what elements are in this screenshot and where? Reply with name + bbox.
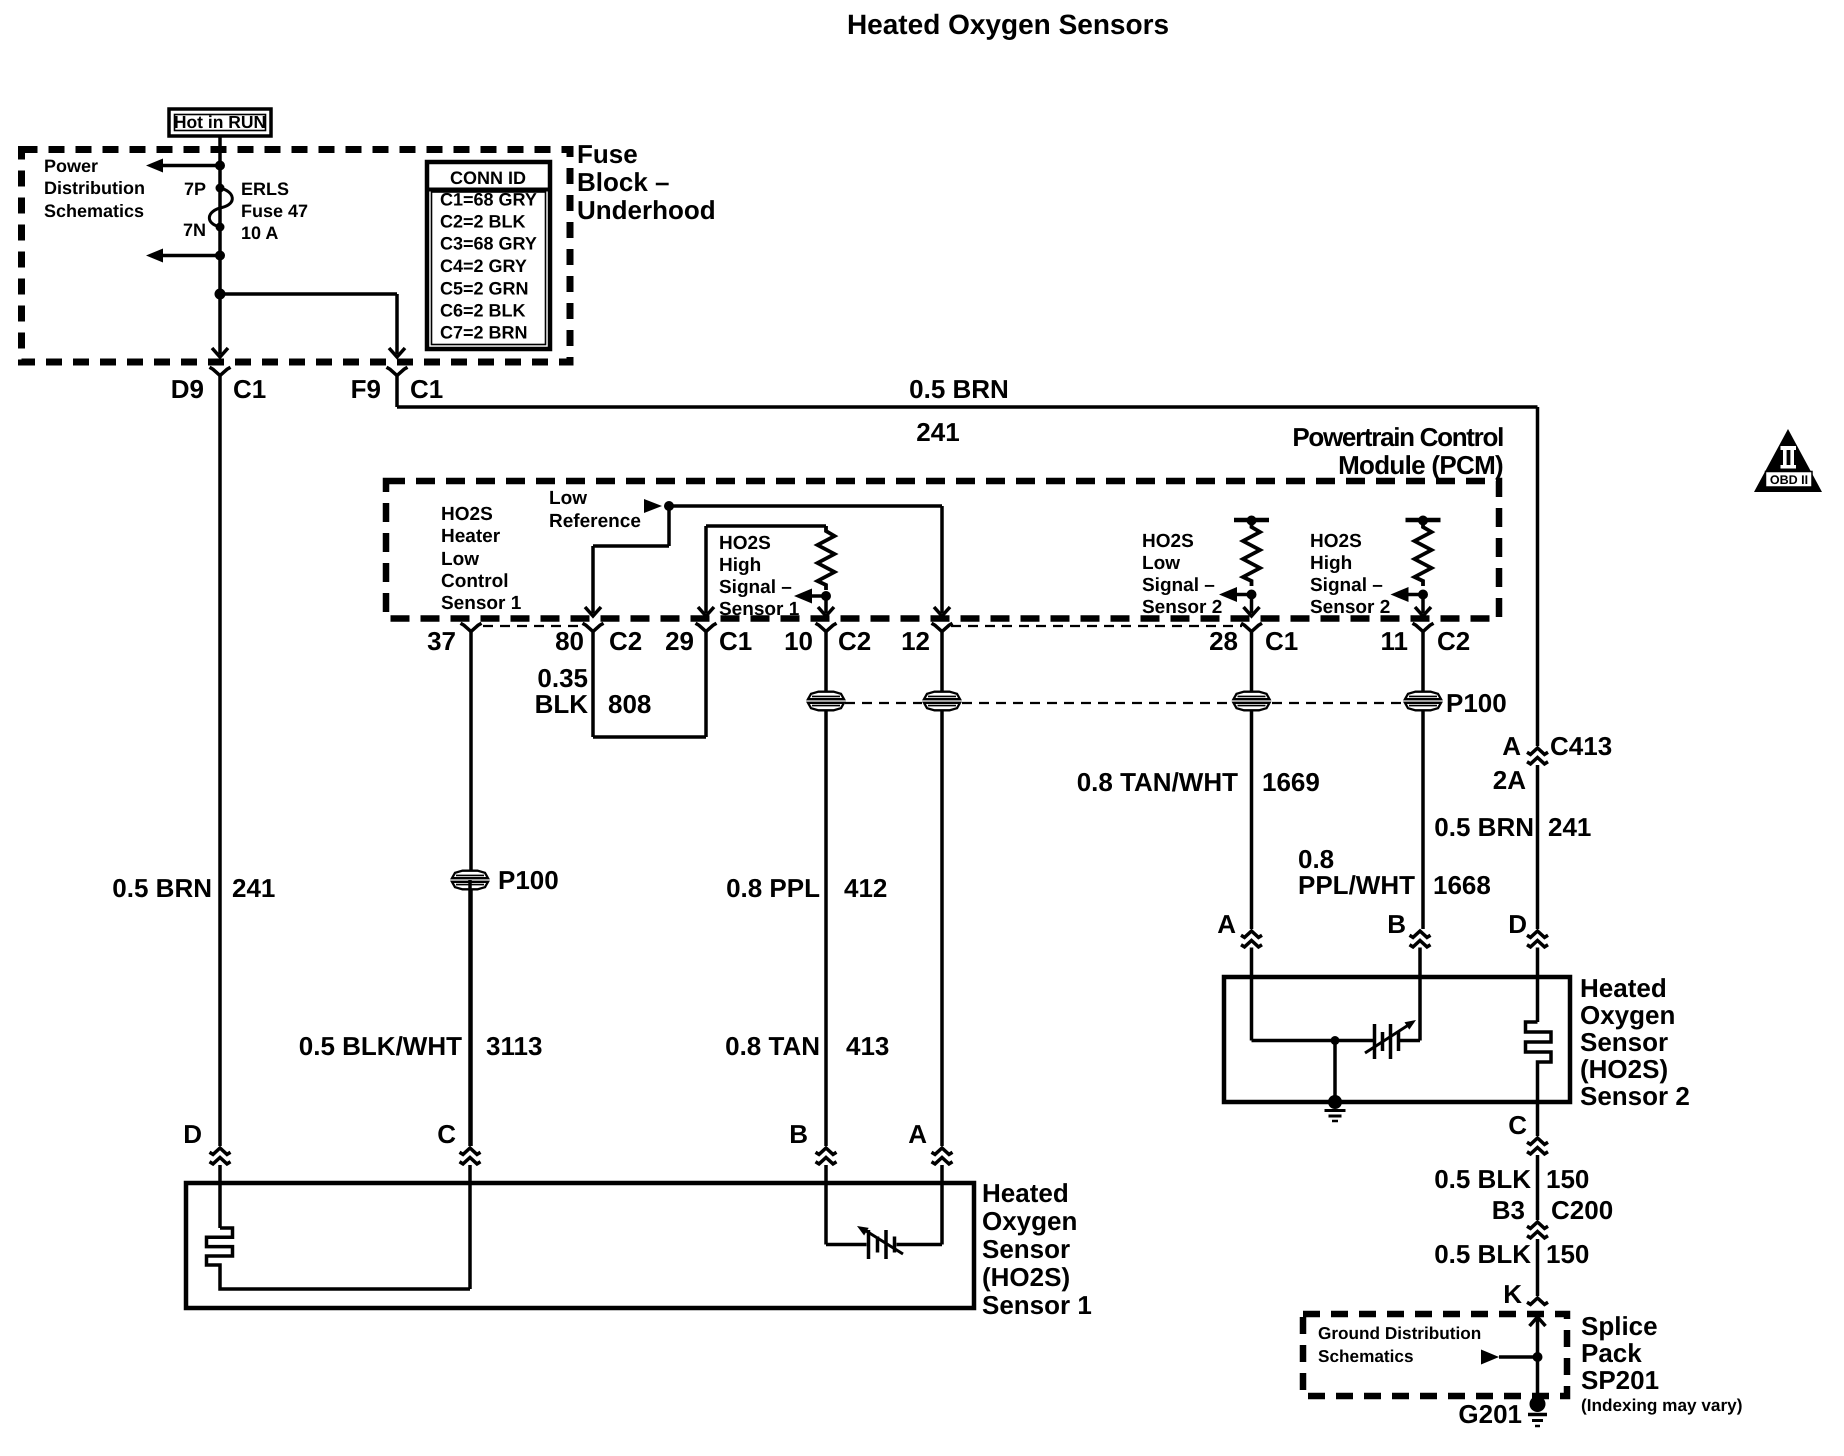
svg-text:1669: 1669 bbox=[1262, 767, 1320, 797]
svg-text:10 A: 10 A bbox=[241, 223, 278, 243]
svg-text:3113: 3113 bbox=[486, 1031, 542, 1061]
svg-text:2A: 2A bbox=[1493, 765, 1526, 795]
svg-text:Pack: Pack bbox=[1581, 1338, 1642, 1368]
svg-text:CONN ID: CONN ID bbox=[450, 168, 526, 188]
svg-text:Low: Low bbox=[549, 488, 587, 509]
svg-text:HO2S: HO2S bbox=[1142, 531, 1194, 552]
svg-text:Block –: Block – bbox=[577, 167, 670, 197]
svg-text:Heated: Heated bbox=[982, 1178, 1069, 1208]
svg-text:C2: C2 bbox=[1437, 626, 1470, 656]
svg-text:Sensor 1: Sensor 1 bbox=[982, 1290, 1092, 1320]
svg-text:241: 241 bbox=[232, 873, 275, 903]
svg-text:D: D bbox=[183, 1119, 202, 1149]
svg-text:80: 80 bbox=[555, 626, 584, 656]
svg-text:(Indexing may vary): (Indexing may vary) bbox=[1581, 1395, 1742, 1415]
svg-text:Low: Low bbox=[1142, 553, 1180, 574]
svg-text:C1: C1 bbox=[1265, 626, 1298, 656]
svg-text:Sensor: Sensor bbox=[1580, 1027, 1668, 1057]
svg-text:Sensor 2: Sensor 2 bbox=[1580, 1081, 1690, 1111]
svg-text:808: 808 bbox=[608, 689, 651, 719]
svg-text:Sensor 1: Sensor 1 bbox=[441, 593, 522, 614]
svg-text:A: A bbox=[1217, 909, 1236, 939]
svg-text:(HO2S): (HO2S) bbox=[1580, 1054, 1668, 1084]
svg-text:Sensor 1: Sensor 1 bbox=[719, 599, 800, 620]
svg-text:241: 241 bbox=[916, 417, 959, 447]
svg-text:Signal –: Signal – bbox=[1142, 575, 1215, 596]
svg-text:C2: C2 bbox=[609, 626, 642, 656]
svg-text:D: D bbox=[1508, 909, 1527, 939]
svg-text:28: 28 bbox=[1209, 626, 1238, 656]
svg-text:High: High bbox=[719, 555, 761, 576]
svg-text:C413: C413 bbox=[1550, 731, 1612, 761]
svg-text:Fuse: Fuse bbox=[577, 139, 638, 169]
svg-text:Power: Power bbox=[44, 156, 98, 176]
svg-text:Sensor: Sensor bbox=[982, 1234, 1070, 1264]
svg-text:C6=2 BLK: C6=2 BLK bbox=[440, 301, 526, 321]
svg-text:Hot in RUN: Hot in RUN bbox=[174, 112, 266, 132]
svg-text:0.5 BRN: 0.5 BRN bbox=[112, 873, 212, 903]
svg-text:C1=68 GRY: C1=68 GRY bbox=[440, 190, 537, 210]
svg-text:7P: 7P bbox=[184, 179, 206, 199]
svg-text:11: 11 bbox=[1381, 626, 1409, 656]
svg-text:C200: C200 bbox=[1551, 1195, 1613, 1225]
svg-text:B: B bbox=[1387, 909, 1406, 939]
svg-text:412: 412 bbox=[844, 873, 887, 903]
svg-text:0.5 BLK: 0.5 BLK bbox=[1434, 1164, 1531, 1194]
svg-text:(HO2S): (HO2S) bbox=[982, 1262, 1070, 1292]
svg-text:SP201: SP201 bbox=[1581, 1365, 1659, 1395]
svg-text:29: 29 bbox=[665, 626, 694, 656]
svg-text:P100: P100 bbox=[498, 865, 559, 895]
svg-text:Schematics: Schematics bbox=[1318, 1346, 1414, 1366]
svg-text:0.5 BRN: 0.5 BRN bbox=[909, 374, 1009, 404]
svg-text:Heated: Heated bbox=[1580, 973, 1667, 1003]
svg-text:1668: 1668 bbox=[1433, 870, 1491, 900]
svg-text:D9: D9 bbox=[171, 374, 204, 404]
svg-text:HO2S: HO2S bbox=[441, 504, 493, 525]
svg-text:Oxygen: Oxygen bbox=[982, 1206, 1077, 1236]
svg-text:0.5 BLK: 0.5 BLK bbox=[1434, 1239, 1531, 1269]
svg-text:Fuse 47: Fuse 47 bbox=[241, 201, 308, 221]
svg-text:HO2S: HO2S bbox=[1310, 531, 1362, 552]
svg-text:Sensor 2: Sensor 2 bbox=[1310, 597, 1390, 618]
svg-text:Oxygen: Oxygen bbox=[1580, 1000, 1675, 1030]
svg-text:F9: F9 bbox=[351, 374, 381, 404]
svg-text:C1: C1 bbox=[233, 374, 266, 404]
svg-text:Signal –: Signal – bbox=[1310, 575, 1383, 596]
svg-text:OBD II: OBD II bbox=[1770, 473, 1808, 487]
svg-text:0.5 BRN: 0.5 BRN bbox=[1434, 812, 1534, 842]
svg-text:7N: 7N bbox=[183, 220, 206, 240]
svg-text:C5=2 GRN: C5=2 GRN bbox=[440, 279, 529, 299]
svg-text:C4=2 GRY: C4=2 GRY bbox=[440, 256, 527, 276]
svg-text:0.8 PPL: 0.8 PPL bbox=[726, 873, 820, 903]
svg-text:Heater: Heater bbox=[441, 526, 501, 547]
svg-text:C: C bbox=[437, 1119, 456, 1149]
svg-text:A: A bbox=[908, 1119, 927, 1149]
svg-text:C3=68 GRY: C3=68 GRY bbox=[440, 234, 537, 254]
svg-text:C1: C1 bbox=[410, 374, 443, 404]
svg-text:Heated Oxygen Sensors: Heated Oxygen Sensors bbox=[847, 9, 1169, 40]
svg-text:P100: P100 bbox=[1446, 688, 1507, 718]
svg-text:Sensor 2: Sensor 2 bbox=[1142, 597, 1222, 618]
svg-text:HO2S: HO2S bbox=[719, 533, 771, 554]
svg-text:0.8 TAN/WHT: 0.8 TAN/WHT bbox=[1077, 767, 1238, 797]
svg-text:B: B bbox=[789, 1119, 808, 1149]
svg-text:Ground Distribution: Ground Distribution bbox=[1318, 1323, 1481, 1343]
svg-text:B3: B3 bbox=[1492, 1195, 1525, 1225]
svg-text:Module (PCM): Module (PCM) bbox=[1338, 450, 1503, 480]
svg-text:C7=2 BRN: C7=2 BRN bbox=[440, 323, 528, 343]
svg-text:C2: C2 bbox=[838, 626, 871, 656]
svg-text:413: 413 bbox=[846, 1031, 889, 1061]
svg-text:Splice: Splice bbox=[1581, 1311, 1658, 1341]
svg-text:High: High bbox=[1310, 553, 1352, 574]
svg-text:10: 10 bbox=[784, 626, 813, 656]
svg-text:Schematics: Schematics bbox=[44, 201, 144, 221]
svg-text:Reference: Reference bbox=[549, 511, 641, 532]
svg-text:Powertrain Control: Powertrain Control bbox=[1292, 422, 1503, 452]
svg-text:37: 37 bbox=[427, 626, 456, 656]
svg-text:0.5 BLK/WHT: 0.5 BLK/WHT bbox=[299, 1031, 462, 1061]
svg-text:C2=2 BLK: C2=2 BLK bbox=[440, 212, 526, 232]
svg-text:0.8 TAN: 0.8 TAN bbox=[725, 1031, 820, 1061]
svg-text:PPL/WHT: PPL/WHT bbox=[1298, 870, 1415, 900]
svg-text:150: 150 bbox=[1546, 1164, 1589, 1194]
svg-text:A: A bbox=[1502, 731, 1521, 761]
svg-text:Distribution: Distribution bbox=[44, 178, 145, 198]
svg-text:K: K bbox=[1503, 1279, 1522, 1309]
svg-text:G201: G201 bbox=[1458, 1399, 1522, 1429]
svg-text:ERLS: ERLS bbox=[241, 179, 289, 199]
svg-text:C1: C1 bbox=[719, 626, 752, 656]
svg-text:BLK: BLK bbox=[535, 689, 589, 719]
svg-text:Signal –: Signal – bbox=[719, 577, 792, 598]
svg-text:C: C bbox=[1508, 1110, 1527, 1140]
svg-text:Low: Low bbox=[441, 549, 479, 570]
svg-text:150: 150 bbox=[1546, 1239, 1589, 1269]
svg-text:12: 12 bbox=[901, 626, 930, 656]
svg-text:241: 241 bbox=[1548, 812, 1591, 842]
svg-text:Control: Control bbox=[441, 571, 509, 592]
svg-text:Underhood: Underhood bbox=[577, 195, 716, 225]
